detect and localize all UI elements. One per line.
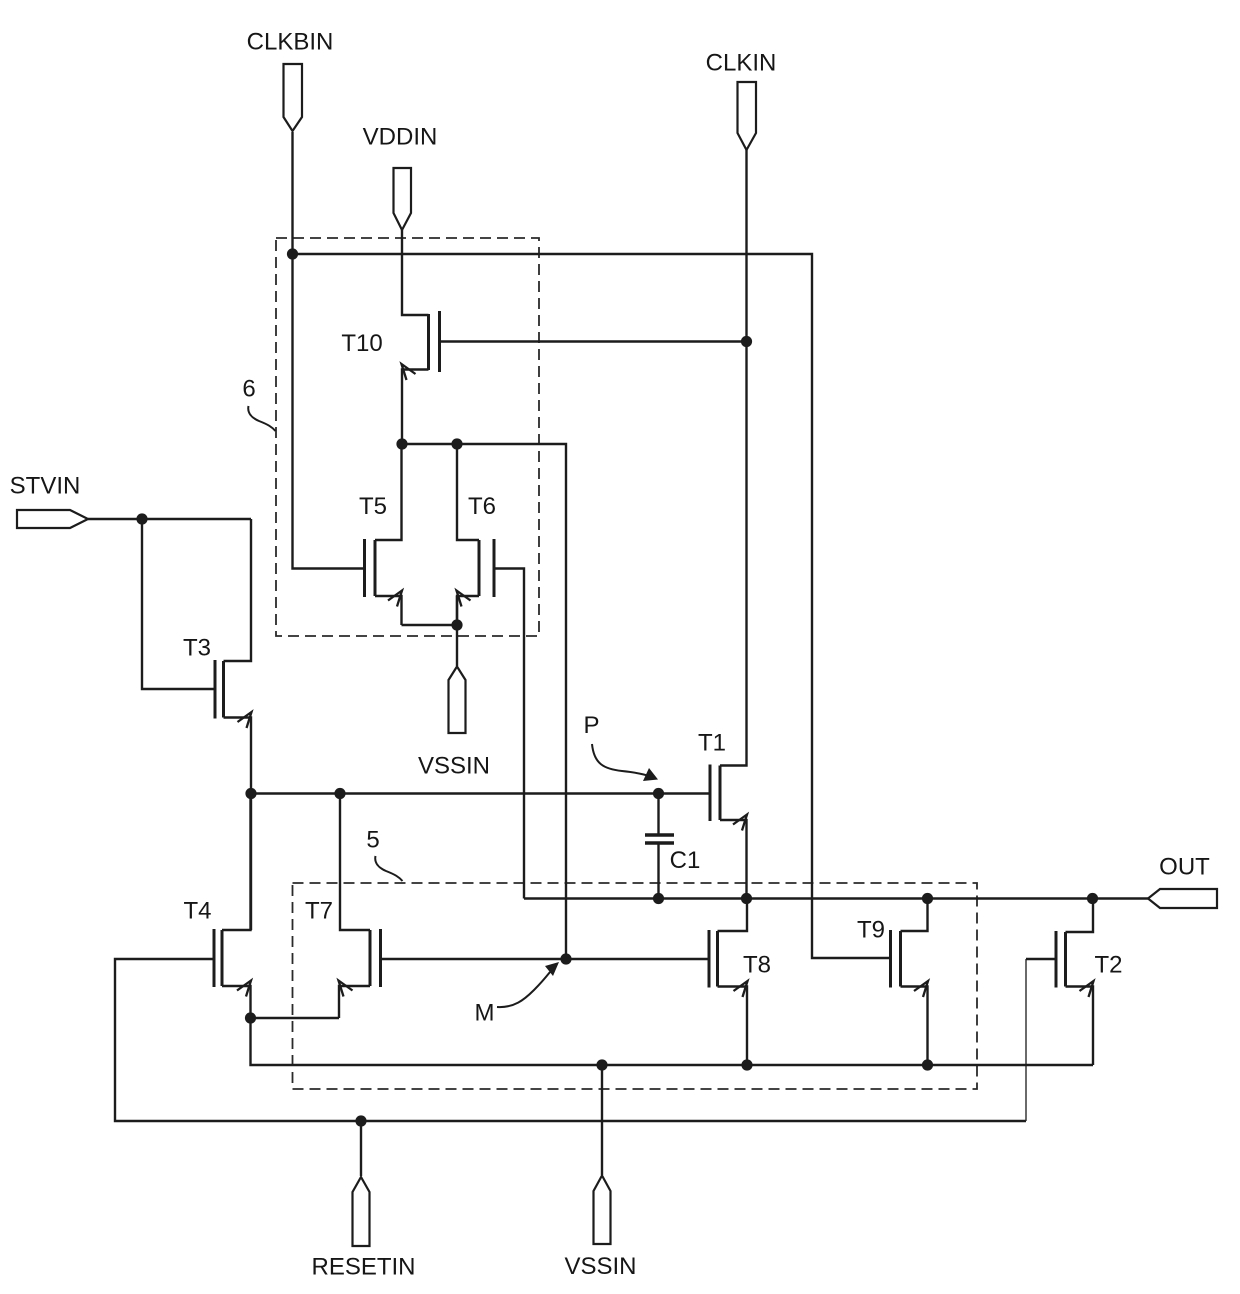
- svg-text:VSSIN: VSSIN: [564, 1253, 636, 1280]
- svg-text:CLKBIN: CLKBIN: [247, 29, 334, 56]
- transistor T8: [709, 899, 771, 1066]
- node T9 source junction: [922, 1059, 933, 1070]
- node T1 source / T8 drain: [741, 893, 752, 904]
- svg-text:T7: T7: [305, 898, 333, 925]
- svg-text:T6: T6: [468, 493, 496, 520]
- wire STVIN input: [88, 518, 251, 520]
- wire VSS rail: [251, 1018, 1094, 1065]
- wire T5/T6 drain bus: [402, 444, 566, 959]
- transistor T6: [457, 444, 497, 625]
- svg-text:T2: T2: [1095, 952, 1123, 979]
- wire T6 gate feedback to OUT line: [494, 569, 524, 899]
- svg-text:T4: T4: [183, 898, 211, 925]
- wire CLKBIN vertical + T5 gate feed: [293, 132, 365, 569]
- terminal CLKBIN: [247, 29, 334, 132]
- node T10 gate / CLKIN junction: [741, 336, 752, 347]
- svg-text:T10: T10: [341, 330, 382, 357]
- node T2 drain / OUT: [1087, 893, 1098, 904]
- node P: [653, 788, 664, 799]
- wire T4/T7 source link: [251, 1017, 340, 1019]
- node T5/T6 source junction: [451, 619, 462, 630]
- svg-text:RESETIN: RESETIN: [311, 1254, 415, 1281]
- transistor T9: [857, 899, 928, 1066]
- wire T10 gate to CLKIN line: [440, 340, 747, 342]
- dashed box 5: [293, 883, 978, 1089]
- wire VSSIN bottom stub: [601, 1065, 603, 1175]
- svg-text:P: P: [583, 712, 599, 739]
- node junction CLKB top: [287, 248, 298, 259]
- node T4 source junction: [245, 1012, 256, 1023]
- wire top horizontal CLKB to right column: [293, 254, 891, 958]
- svg-text:T5: T5: [359, 493, 387, 520]
- node T7 drain junction: [334, 788, 345, 799]
- terminal OUT: [1148, 854, 1217, 909]
- terminal CLKIN: [706, 50, 777, 151]
- svg-text:OUT: OUT: [1159, 854, 1210, 881]
- label P with pointer: [583, 712, 658, 781]
- transistor T5: [359, 444, 402, 625]
- svg-text:T9: T9: [857, 917, 885, 944]
- node C1 bottom: [653, 893, 664, 904]
- terminal STVIN: [10, 473, 88, 529]
- svg-text:T1: T1: [698, 730, 726, 757]
- wire RESETIN terminal stub: [360, 1121, 362, 1176]
- svg-text:6: 6: [242, 376, 255, 403]
- wire node M gate line: [381, 958, 710, 960]
- node VSSIN rail junction: [596, 1059, 607, 1070]
- terminal VDDIN: [363, 124, 438, 231]
- transistor T4: [183, 794, 251, 1019]
- node junction left: [396, 438, 407, 449]
- node T8 source junction: [741, 1059, 752, 1070]
- terminal VSSIN (bottom): [564, 1176, 636, 1281]
- wire node P horizontal: [251, 792, 710, 794]
- svg-text:T3: T3: [183, 635, 211, 662]
- wire STVIN to T3 gate: [142, 519, 215, 689]
- terminal VSSIN (middle): [418, 667, 490, 780]
- svg-text:C1: C1: [670, 847, 701, 874]
- dashed box 6: [276, 238, 539, 636]
- node T3 source junction: [245, 788, 256, 799]
- label 6 with squiggle: [242, 376, 275, 432]
- wire T5/T6 sources to VSSIN: [402, 596, 458, 666]
- label 5 with squiggle: [366, 827, 402, 882]
- svg-text:T8: T8: [743, 952, 771, 979]
- transistor T2: [1056, 899, 1123, 1066]
- transistor T7: [305, 794, 381, 1019]
- wire T4 gate to RESETIN line and T2 gate: [115, 959, 1026, 1121]
- transistor T3: [183, 519, 252, 794]
- wire VDDIN to T10 drain: [402, 230, 429, 315]
- svg-text:5: 5: [366, 827, 379, 854]
- node T9 drain: [922, 893, 933, 904]
- svg-text:VSSIN: VSSIN: [418, 753, 490, 780]
- svg-text:STVIN: STVIN: [10, 473, 81, 500]
- label M with pointer: [475, 962, 560, 1027]
- svg-text:CLKIN: CLKIN: [706, 50, 777, 77]
- node STVIN junction: [136, 513, 147, 524]
- node junction right: [451, 438, 462, 449]
- capacitor C1: [645, 794, 700, 899]
- wire P node down T4 drain: [250, 794, 252, 931]
- node M: [560, 953, 571, 964]
- svg-text:M: M: [475, 1000, 495, 1027]
- wire OUT line: [524, 897, 1148, 899]
- node RESETIN junction: [355, 1115, 366, 1126]
- terminal RESETIN: [311, 1177, 415, 1281]
- transistor T10: [341, 311, 439, 444]
- transistor T1: [698, 150, 747, 899]
- svg-text:VDDIN: VDDIN: [363, 124, 438, 151]
